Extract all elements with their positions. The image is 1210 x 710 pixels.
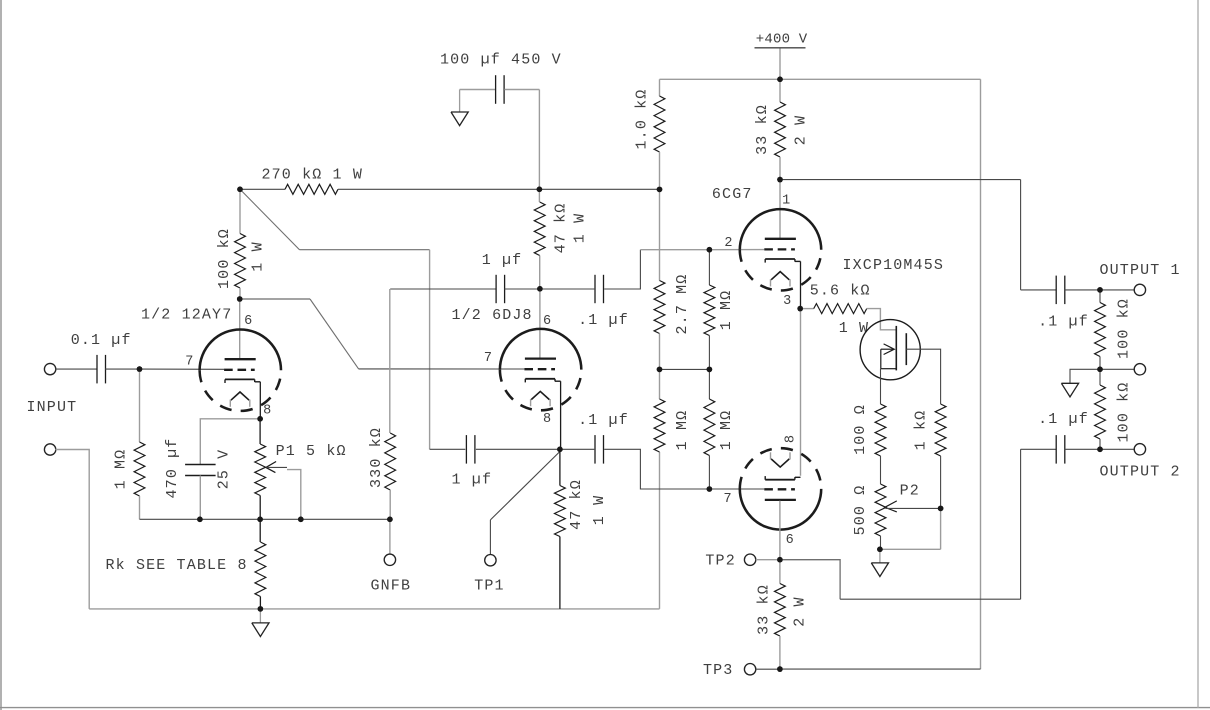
wire 1uF right to plate node [505,288,595,290]
capacitor 100uF 450V [495,75,497,104]
terminal TP1 [485,555,496,566]
svg-text:6: 6 [543,314,552,329]
svg-text:+400 V: +400 V [756,32,808,48]
wire 330k top vertical [390,288,496,290]
wire 100k out1 bottom lead [1099,357,1101,370]
svg-text:1 W: 1 W [572,213,589,243]
node input grid junction [137,366,143,372]
svg-text:470 µf: 470 µf [164,438,181,499]
wire 33k lower top lead [779,560,781,584]
potentiometer P2 500 Ohm [875,484,886,536]
wire grid row upper [640,249,709,251]
wire bootstrap vertical [429,250,431,450]
wire 47k upper top lead [538,189,540,202]
wire 33k-2W upper bottom lead [779,157,781,180]
wire 330k riser vertical [389,289,391,433]
wire right B+ feed vertical to TP3 row [980,79,982,669]
wire 47k lower top lead [559,449,561,485]
wire P1 bottom lead [259,496,261,520]
wire 330k bottom lead [389,490,391,519]
resistor 100 kOhm output2 [1095,385,1106,439]
ground output divider [1061,383,1078,397]
wire 1k bottom lead [940,456,942,508]
svg-text:330 kΩ: 330 kΩ [368,427,385,488]
wire TP2 to junction [756,559,780,561]
svg-text:IXCP10M45S: IXCP10M45S [843,257,945,274]
transistor IXCP10M45S depletion MOSFET U1 [860,320,920,380]
svg-text:33 kΩ: 33 kΩ [754,104,771,155]
border frame right edge [1197,0,1199,708]
wire Rk top lead [259,519,261,542]
wire P1 top lead [259,419,261,444]
terminal TP3 [744,664,755,675]
resistor 1.0 kOhm [654,96,665,152]
wire bootstrap elbow to 1uF [430,448,466,450]
node 6CG7 lower grid junction [707,486,713,492]
wire 100R to 500R lead [880,456,882,484]
wire .1uF to 6CG7 grid elbow [604,250,640,289]
svg-text:2.7 MΩ: 2.7 MΩ [674,274,691,335]
resistor 1 MOhm right-top [704,285,715,336]
svg-text:1/2 6DJ8: 1/2 6DJ8 [452,307,533,324]
resistor 33 kOhm 2W lower [775,584,786,637]
wire P2 wiper link [886,507,941,509]
wire .1uF lower to 6CG7 lower grid elbow [604,449,709,489]
node 500R ground junction [877,547,883,553]
svg-text:6: 6 [786,533,795,548]
wire mid to terminal [1100,368,1135,370]
node 6CG7 plate junction [777,177,783,183]
svg-text:.1 µf: .1 µf [578,412,629,429]
wire 500R bottom lead [880,536,882,549]
resistor 100 Ohm [875,404,886,456]
wire 6CG7 upper grid lead [709,249,764,251]
svg-text:2: 2 [724,236,733,251]
svg-text:1: 1 [782,194,791,209]
node ladder left mid junction [657,367,663,373]
wire input ground jog [55,450,89,609]
wire plate row to output 1 corner [780,179,1021,181]
svg-text:0.1 µf: 0.1 µf [71,332,132,349]
wire 1.0k bottom lead [659,152,661,189]
svg-text:1 MΩ: 1 MΩ [674,410,691,451]
wire GNFB terminal lead [389,519,391,554]
capacitor 0.1uF input [96,355,98,384]
wire 100uF cap left lead [460,89,496,91]
svg-text:47 kΩ: 47 kΩ [552,203,569,254]
wire 12AY7 plate lead [239,299,241,359]
svg-text:1 MΩ: 1 MΩ [113,449,130,490]
svg-text:2 W: 2 W [793,115,810,145]
wire MOSFET source lead [880,369,882,404]
svg-text:.1 µf: .1 µf [1038,314,1089,331]
resistor 47 kOhm 1W upper [534,202,545,256]
svg-text:P1 5 kΩ: P1 5 kΩ [276,443,347,460]
wire output2 cap to node [1065,448,1100,450]
svg-text:8: 8 [543,412,552,427]
wire .1uF lower left lead [560,448,594,450]
wire mid ground jog [1070,369,1100,383]
svg-text:100 Ω: 100 Ω [852,404,869,455]
wire ladder link [660,368,710,370]
svg-text:1 µf: 1 µf [452,472,493,489]
tube 12AY7 triode V1 [200,330,281,371]
svg-text:2 W: 2 W [792,596,809,626]
svg-text:47 kΩ: 47 kΩ [568,479,585,530]
resistor 33 kOhm 2W upper [775,102,786,157]
wire ground rail [89,608,659,610]
wire 270k rail right segment [338,188,660,190]
terminal output mid [1134,364,1145,375]
wire 1M right-top bottom lead [708,336,710,370]
wire cathode rail [140,518,390,520]
capacitor 470uF 25V [185,464,216,466]
terminal INPUT bottom [44,444,55,455]
wire TP3 row [756,668,780,670]
wire 12AY7 grid lead [140,368,225,370]
svg-text:25 V: 25 V [216,449,233,490]
node +400V rail junction [777,77,783,83]
wire 2.7M bottom lead [659,334,661,370]
resistor Rk [255,542,266,597]
resistor 100 kOhm output1 [1095,303,1106,357]
svg-text:1 MΩ: 1 MΩ [718,410,735,451]
wire 6CG7 lower plate lead [779,501,781,560]
svg-text:OUTPUT 1: OUTPUT 1 [1100,262,1181,279]
wire 1M input top lead [139,369,141,442]
node output1 junction [1097,287,1103,293]
wire 1M left-bottom top lead [659,369,661,399]
node Rk ground junction [258,606,264,612]
wire 47k upper bottom lead [539,256,541,289]
wire 1.0k top lead [659,79,661,96]
svg-text:INPUT: INPUT [27,399,78,416]
node TP3 junction [777,666,783,672]
wire horizontal to bootstrap corner [300,249,430,251]
wire TP2 junction to elbow [780,560,840,600]
resistor 100 kOhm 1W [235,234,246,289]
capacitor .1uF output1 [1055,276,1057,305]
wire output2 to terminal [1100,448,1135,450]
svg-text:OUTPUT 2: OUTPUT 2 [1100,464,1181,481]
node P1 wiper bottom junction [298,517,304,523]
svg-text:6CG7: 6CG7 [712,186,753,203]
wire 6CG7 lower grid lead [709,488,764,490]
node 12AY7 plate junction [237,296,243,302]
svg-text:270 kΩ 1 W: 270 kΩ 1 W [262,167,364,184]
wire output2 riser vertical [1020,449,1022,599]
wire 1M right-top top lead [708,250,710,285]
capacitor .1uF output2 [1055,435,1057,464]
svg-text:8: 8 [263,403,272,418]
wire cap to grid node [105,368,139,370]
wire diagonal plate to grid [310,299,359,369]
tube 6DJ8 triode V2 [500,329,581,370]
resistor 1 kOhm [935,404,946,456]
wire output2 feed [1021,448,1057,450]
wire 12AY7 plate node right [240,298,310,300]
terminal INPUT top [44,363,55,374]
wire +400V rail horizontal [660,78,981,80]
capacitor 1uF lower [465,435,467,464]
wire 6CG7 upper plate lead [779,180,781,239]
resistor 270 kOhm 1W [285,184,338,194]
svg-text:8: 8 [784,434,799,443]
svg-text:100 kΩ: 100 kΩ [1116,298,1133,359]
svg-text:1 MΩ: 1 MΩ [718,290,735,331]
wire TP2 row to output2 riser [840,598,1021,600]
svg-text:500 Ω: 500 Ω [852,485,869,536]
potentiometer P1 5 kOhm [255,444,266,496]
svg-text:1 W: 1 W [250,241,267,271]
wire 6CG7 upper cathode lead [800,261,802,308]
svg-text:33 kΩ: 33 kΩ [756,584,773,635]
node P1 bottom junction [257,517,263,523]
wire TP1 vertical lead [489,520,491,555]
tube 6CG7 upper triode V3a [740,209,821,250]
wire 47k lower bottom lead [559,537,561,609]
svg-text:6: 6 [244,314,253,329]
svg-text:3: 3 [783,294,792,309]
wire MOSFET drain to 1k [906,349,940,404]
wire 6DJ8 plate lead [539,289,541,359]
resistor 1 MOhm left-bottom [654,399,665,452]
svg-text:7: 7 [723,492,732,507]
wire diagonal from 270k node [240,189,300,249]
svg-text:TP1: TP1 [474,578,504,595]
ground MOSFET network [879,549,881,563]
resistor 1 MOhm input [134,442,145,496]
node output2 junction [1097,447,1103,453]
wire 6DJ8 cathode lead [560,381,562,449]
svg-text:Rk SEE TABLE 8: Rk SEE TABLE 8 [106,557,248,574]
wire 100k out2 bottom lead [1099,439,1101,449]
wire 100k top lead [239,189,241,233]
wire 12AY7 cathode lead [259,382,261,419]
wire 1M input bottom lead [139,496,141,519]
svg-text:5.6 kΩ: 5.6 kΩ [810,282,871,299]
wire 33k lower bottom lead [779,636,781,669]
wire 100k out1 top lead [1099,290,1101,303]
svg-text:P2: P2 [900,483,920,500]
node 12AY7 cathode junction pin8 [257,416,263,422]
wire cathode junction to 5.6k [800,308,814,310]
node 1.0k bottom junction [657,187,663,193]
wire ground rail up to divider [659,452,661,609]
terminal OUTPUT 1 [1134,284,1145,295]
svg-text:.1 µf: .1 µf [1038,411,1089,428]
ground main [259,609,261,623]
node 6DJ8 plate junction [537,286,543,292]
terminal GNFB [384,554,395,565]
node P2 wiper junction [938,506,944,512]
svg-text:100 µf 450 V: 100 µf 450 V [440,52,562,69]
node 6CG7 upper grid junction [707,247,713,253]
wire Rk bottom lead [259,597,261,609]
wire 100k out2 top lead [1099,369,1101,385]
svg-text:100 kΩ: 100 kΩ [1116,382,1133,443]
wire to 500R bottom [880,548,941,550]
wire 270k rail left segment [240,188,285,190]
resistor 47 kOhm 1W lower [555,486,566,537]
wire P1 wiper link [267,466,288,468]
resistor 2.7 MOhm [654,281,665,334]
svg-text:1 kΩ: 1 kΩ [912,410,929,451]
P1 wiper arrow [266,462,276,473]
svg-text:GNFB: GNFB [371,578,412,595]
terminal OUTPUT 2 [1134,444,1145,455]
capacitor .1uF upper [594,275,596,303]
resistor 5.6 kOhm 1W [814,304,867,314]
wire output1 feed [1021,289,1057,291]
wire gate elbow [867,309,896,330]
wire output1 cap to node [1065,289,1100,291]
svg-text:1/2 12AY7: 1/2 12AY7 [141,307,232,324]
node 6CG7 upper cathode junction [797,306,803,312]
node 47k top junction [537,187,543,193]
border frame left edge [0,0,2,710]
wire 33k-2W upper top lead [779,79,781,102]
ground for 100uF cap [459,90,461,113]
wire output1 to terminal [1100,289,1135,291]
capacitor .1uF lower [594,435,596,464]
svg-text:100 kΩ: 100 kΩ [216,228,233,289]
svg-text:.1 µf: .1 µf [578,312,629,329]
wire 1M right-bottom bottom lead [708,456,710,490]
wire TP1 diagonal [490,452,560,520]
node 470uF bottom junction [197,517,203,523]
wire 100uF cap right lead [504,89,539,91]
terminal TP2 [744,554,755,565]
wire 1uF lower right lead [476,448,560,450]
wire +400V lead down [779,49,781,80]
wire 470uF bottom lead [199,476,201,520]
wire cathode to 470uF elbow [200,419,260,465]
wire input to coupling cap [55,368,97,370]
node output mid junction [1097,367,1103,373]
svg-text:TP2: TP2 [705,553,735,570]
border frame bottom edge [0,707,1210,709]
svg-text:7: 7 [484,351,493,366]
node GNFB junction [387,517,393,523]
svg-text:1.0 kΩ: 1.0 kΩ [634,89,651,150]
wire cathodes link vertical [800,309,802,476]
wire 100uF to B+ rail vertical [538,90,540,190]
+400V underline bar [755,47,806,49]
junction dots overlay [777,77,783,83]
resistor 330 kOhm [385,433,396,490]
P2 wiper arrow [885,501,897,512]
svg-text:1 W: 1 W [591,495,608,525]
wire 2.7M top lead [659,189,661,280]
svg-text:TP3: TP3 [703,662,733,679]
wire 1M right-bottom top lead [708,369,710,399]
node ladder right mid junction [707,367,713,373]
node 270k left junction [237,187,243,193]
wire 100k bottom lead [239,288,241,299]
node TP2 junction [777,557,783,563]
node 6DJ8 cathode junction [557,447,563,453]
resistor 1 MOhm right-bottom [704,399,715,456]
wire 6DJ8 grid row [359,368,525,370]
capacitor 1uF upper [495,275,497,303]
tube 6CG7 lower triode V3b [740,489,821,530]
svg-text:1 µf: 1 µf [482,252,523,269]
wire wiper junction down [940,508,942,549]
svg-text:7: 7 [185,354,194,369]
